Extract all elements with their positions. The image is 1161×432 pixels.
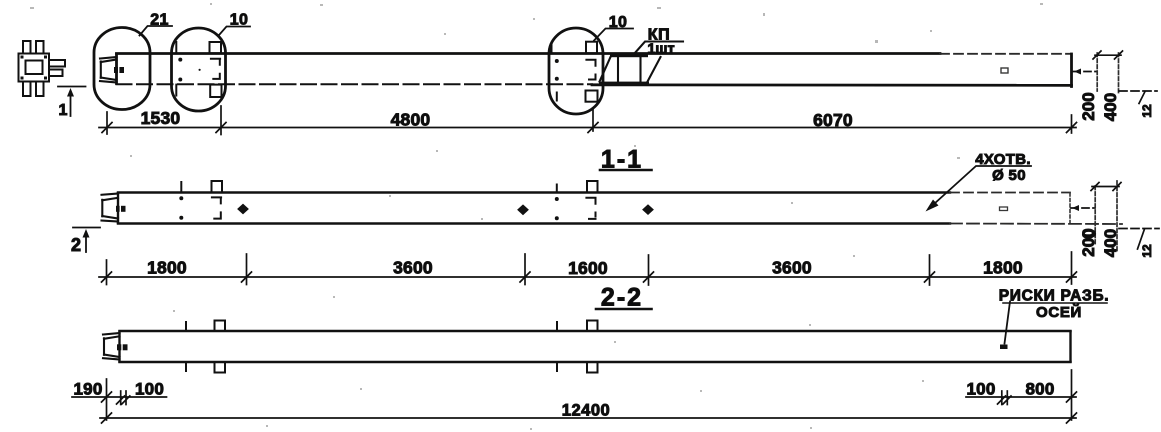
svg-text:3600: 3600 <box>772 258 812 278</box>
svg-text:2: 2 <box>71 235 81 255</box>
svg-text:Ø 50: Ø 50 <box>992 167 1026 184</box>
svg-text:3600: 3600 <box>393 258 433 278</box>
svg-text:800: 800 <box>1026 380 1055 399</box>
svg-text:1: 1 <box>59 102 68 119</box>
svg-text:1800: 1800 <box>983 258 1023 278</box>
svg-text:12400: 12400 <box>562 402 610 420</box>
svg-text:400: 400 <box>1101 229 1120 257</box>
svg-text:1800: 1800 <box>147 258 187 278</box>
svg-text:12: 12 <box>1140 104 1154 118</box>
svg-text:6070: 6070 <box>813 110 853 130</box>
svg-text:10: 10 <box>230 12 249 29</box>
svg-text:4800: 4800 <box>391 110 431 130</box>
svg-text:200: 200 <box>1079 92 1098 120</box>
svg-text:10: 10 <box>609 14 628 31</box>
svg-text:21: 21 <box>150 12 169 29</box>
svg-text:1шт: 1шт <box>647 42 674 58</box>
svg-text:РИСКИ РАЗБ.: РИСКИ РАЗБ. <box>999 288 1110 305</box>
svg-text:4ХОТВ.: 4ХОТВ. <box>975 151 1031 168</box>
svg-text:1600: 1600 <box>568 258 608 278</box>
svg-text:190: 190 <box>74 380 103 399</box>
svg-text:ОСЕЙ: ОСЕЙ <box>1036 303 1082 321</box>
svg-text:12: 12 <box>1140 244 1154 258</box>
svg-text:1530: 1530 <box>141 108 181 128</box>
svg-text:100: 100 <box>135 380 164 399</box>
svg-text:2-2: 2-2 <box>601 284 643 312</box>
svg-text:100: 100 <box>967 380 996 399</box>
svg-text:400: 400 <box>1101 93 1120 121</box>
